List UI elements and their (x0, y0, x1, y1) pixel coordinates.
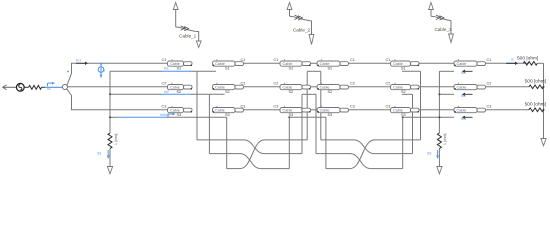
svg-text:S1: S1 (225, 66, 230, 70)
svg-text:500 [ohm]: 500 [ohm] (525, 101, 546, 107)
resistor 500 ohm (2) (525, 78, 546, 88)
svg-text:C1: C1 (386, 58, 391, 62)
current probe Iin (blue) (48, 82, 56, 91)
shield bus (109, 71, 111, 133)
svg-text:Cable: Cable (283, 62, 293, 66)
junction (109, 93, 111, 95)
svg-text:1 [ohm]: 1 [ohm] (114, 134, 118, 145)
svg-text:C2: C2 (162, 81, 167, 85)
current probe out1 (506, 57, 518, 65)
under-wire bus-col6 B2 (439, 93, 454, 95)
wire out2 (486, 86, 530, 88)
cable C2 (column 2) (213, 81, 246, 94)
riser wire R2b (412, 94, 414, 153)
svg-text:Ib1: Ib1 (97, 152, 102, 156)
svg-text:C2: C2 (241, 81, 246, 85)
wire out3 (486, 109, 530, 111)
svg-text:Cable: Cable (283, 86, 293, 90)
junction (438, 116, 440, 118)
svg-text:S3: S3 (328, 113, 333, 117)
node splitter (62, 84, 67, 89)
svg-text:C2: C2 (274, 81, 279, 85)
feeder wire F2 (208, 94, 210, 153)
wire T1 col4-col5 (349, 62, 391, 64)
svg-text:C2: C2 (350, 81, 355, 85)
input port arrow (3, 85, 17, 90)
wire T1 col5-col6 (419, 62, 454, 64)
cable C2 (column 1) (162, 81, 193, 94)
resistor 500 ohm (1) (517, 56, 543, 66)
svg-text:Cable: Cable (320, 62, 330, 66)
svg-text:Cable: Cable (393, 109, 403, 113)
under-wire B1 mid (307, 70, 321, 72)
svg-text:Cable: Cable (393, 62, 403, 66)
source resistor R1 (29, 85, 42, 89)
wire (24, 86, 28, 88)
svg-text:Cable: Cable (457, 62, 467, 66)
under-wire B2 mid (302, 93, 316, 95)
riser wire R3 (288, 117, 290, 168)
svg-text:S2: S2 (328, 90, 333, 94)
transposition X2 descent 1-2 (354, 140, 375, 154)
feeder wire F3 (226, 117, 228, 168)
svg-text:Ib3: Ib3 (461, 117, 466, 121)
label Ib1 (blue) (97, 150, 110, 159)
under-wire bus-col6 B1 (439, 70, 454, 72)
wire T3 col4-col5 (349, 109, 391, 111)
cable C2 (column 6) (454, 81, 491, 98)
under-wire B1 right (402, 70, 421, 72)
resistor 1 ohm (right) (437, 133, 447, 149)
svg-text:C3: C3 (162, 104, 167, 108)
svg-text:Cable: Cable (170, 109, 180, 113)
resistor 500 ohm (3) (525, 101, 546, 111)
svg-text:Iin: Iin (48, 87, 51, 91)
subcircuit port symbol Cable_1 (173, 3, 201, 48)
svg-text:C1: C1 (350, 58, 355, 62)
riser wire R1 (306, 71, 308, 140)
wire T1 col3-col4 (311, 62, 318, 64)
wire branch 2 (68, 86, 168, 88)
svg-text:Cable: Cable (320, 86, 330, 90)
svg-text:S2: S2 (289, 90, 294, 94)
wire out1 (486, 62, 530, 64)
load rail (543, 63, 545, 138)
junction (109, 116, 111, 118)
feeder wire F3b (325, 117, 327, 168)
cable C1 (column 2) (213, 58, 246, 71)
cable C3 (column 4) (317, 104, 355, 117)
wire T2 col4-col5 (349, 86, 391, 88)
svg-text:500 [ohm]: 500 [ohm] (517, 56, 538, 62)
lane 2 wire out (265, 153, 303, 155)
current probe Ib1 (blue) (160, 113, 176, 118)
svg-text:500 [ohm]: 500 [ohm] (525, 78, 546, 84)
wire branch 3 (67, 89, 168, 110)
transposition X1 descent 2-3 (240, 154, 261, 169)
svg-text:C2: C2 (386, 81, 391, 85)
cable C3 (column 2) (213, 104, 246, 117)
junction (438, 93, 440, 95)
lane 2 wire (316, 153, 350, 155)
ground arrow (right) (437, 167, 442, 174)
wire T2 col5-col6 (419, 86, 454, 88)
svg-text:In1: In1 (76, 58, 81, 62)
label Ib2 (blue) (427, 150, 439, 159)
svg-text:S2: S2 (401, 90, 406, 94)
junction (543, 109, 545, 111)
svg-text:Cable: Cable (457, 109, 467, 113)
transposition X1 descent 1-2 (244, 140, 265, 154)
svg-text:S3: S3 (177, 113, 182, 117)
svg-text:Cable_3: Cable_3 (434, 27, 452, 32)
cable C3 (column 1) (162, 104, 193, 117)
under-wire B3 (110, 116, 227, 118)
lane 3 wire out (371, 168, 403, 170)
svg-text:1 [ohm]: 1 [ohm] (443, 134, 447, 145)
cable C1 (column 3) (274, 58, 311, 71)
wire T3 col3-col4 (311, 109, 318, 111)
svg-text:Cable_2: Cable_2 (293, 28, 311, 33)
riser wire R2 (301, 94, 303, 153)
svg-text:S3: S3 (289, 113, 294, 117)
svg-text:C3: C3 (487, 104, 492, 108)
wire (109, 149, 111, 167)
wire T1 col2-col3 (244, 62, 281, 64)
cable C1 (column 5) (386, 58, 420, 71)
svg-text:Cable_1: Cable_1 (179, 33, 197, 38)
svg-text:S3: S3 (401, 113, 406, 117)
subcircuit port symbol Cable_2 (287, 3, 314, 45)
feeder wire F1 (196, 71, 198, 140)
svg-text:Cable: Cable (170, 62, 180, 66)
transposition X1 ascent 3-1 (240, 140, 265, 169)
under-wire B3 right (403, 116, 454, 118)
lane 3 wire out (261, 168, 290, 170)
svg-text:Cable: Cable (457, 86, 467, 90)
lane 1 wire out (265, 139, 308, 141)
wire branch 1 (67, 63, 168, 85)
svg-text:Is: Is (511, 57, 514, 61)
wire with current probe Iin (blue) (42, 86, 63, 88)
svg-text:S2: S2 (177, 90, 182, 94)
cable C1 (column 1) (162, 58, 193, 71)
junction (288, 116, 290, 118)
wire T3 col5-col6 (419, 109, 454, 111)
feeder wire F1b (320, 71, 322, 140)
resistor 1 ohm (left) (108, 133, 118, 149)
riser wire R3b (402, 117, 404, 168)
svg-text:C3: C3 (274, 104, 279, 108)
svg-text:Cable: Cable (170, 86, 180, 90)
svg-text:C1: C1 (487, 58, 492, 62)
under-wire B2 right (402, 93, 413, 95)
cable C1 (column 4) (317, 58, 355, 71)
lane 1 wire (321, 139, 354, 141)
svg-text:Cable: Cable (215, 86, 225, 90)
svg-text:In2: In2 (164, 90, 169, 94)
svg-text:C1: C1 (274, 58, 279, 62)
cable C3 (column 5) (386, 104, 420, 117)
svg-text:S1: S1 (401, 66, 406, 70)
svg-text:S1: S1 (289, 66, 294, 70)
svg-text:Ib2: Ib2 (461, 94, 466, 98)
svg-text:Cable: Cable (393, 86, 403, 90)
lane 3 wire (326, 168, 350, 170)
svg-text:Cable: Cable (215, 62, 225, 66)
svg-text:Cable: Cable (283, 109, 293, 113)
svg-text:Ib2: Ib2 (427, 152, 432, 156)
ground arrow (rail) (541, 139, 546, 146)
svg-text:C3: C3 (386, 104, 391, 108)
junction (543, 86, 545, 88)
svg-text:Cable: Cable (215, 109, 225, 113)
wire (438, 149, 440, 167)
lane 3 wire (227, 168, 240, 170)
junction (402, 116, 404, 118)
ground arrow (left) (107, 167, 112, 174)
svg-text:S2: S2 (225, 90, 230, 94)
subcircuit port symbol Cable_3 (429, 3, 454, 43)
svg-text:Ib1: Ib1 (461, 71, 466, 75)
transposition X2 ascent 3-1 (350, 140, 375, 169)
riser wire R1b (420, 71, 422, 140)
lane 1 wire out (375, 139, 421, 141)
shield bus right (438, 71, 440, 133)
cable C3 (column 6) (454, 104, 491, 121)
cable C1 (column 6) (454, 58, 491, 75)
wire T2 col2-col3 (244, 86, 281, 88)
blue node marker (67, 71, 69, 73)
lane 2 wire (209, 153, 240, 155)
svg-text:Cable: Cable (320, 109, 330, 113)
under-wire B2 (110, 93, 225, 95)
transposition X2 descent 2-3 (350, 154, 371, 169)
feeder wire F2b (315, 94, 317, 153)
wire T3 col2-col3 (244, 109, 281, 111)
under-wire B1 (110, 70, 216, 72)
current arrow In1 (76, 58, 88, 65)
cable C2 (column 5) (386, 81, 420, 94)
lane 2 wire out (375, 153, 413, 155)
svg-text:C1: C1 (162, 58, 167, 62)
cable C3 (column 3) (274, 104, 311, 117)
svg-text:C3: C3 (350, 104, 355, 108)
cable C2 (column 4) (317, 81, 355, 94)
svg-text:C3: C3 (241, 104, 246, 108)
svg-text:C2: C2 (487, 81, 492, 85)
lane 1 wire (197, 139, 244, 141)
svg-text:S1: S1 (177, 66, 182, 70)
wire T2 col3-col4 (311, 86, 318, 88)
svg-text:In1: In1 (164, 66, 169, 70)
ac source V1 (16, 83, 24, 91)
under-wire B3 mid (289, 116, 326, 118)
svg-text:In3: In3 (164, 113, 169, 117)
svg-text:C1: C1 (241, 58, 246, 62)
voltage probe (blue) (98, 63, 105, 78)
svg-text:S1: S1 (328, 66, 333, 70)
svg-text:S3: S3 (225, 113, 230, 117)
cable C2 (column 3) (274, 81, 311, 94)
